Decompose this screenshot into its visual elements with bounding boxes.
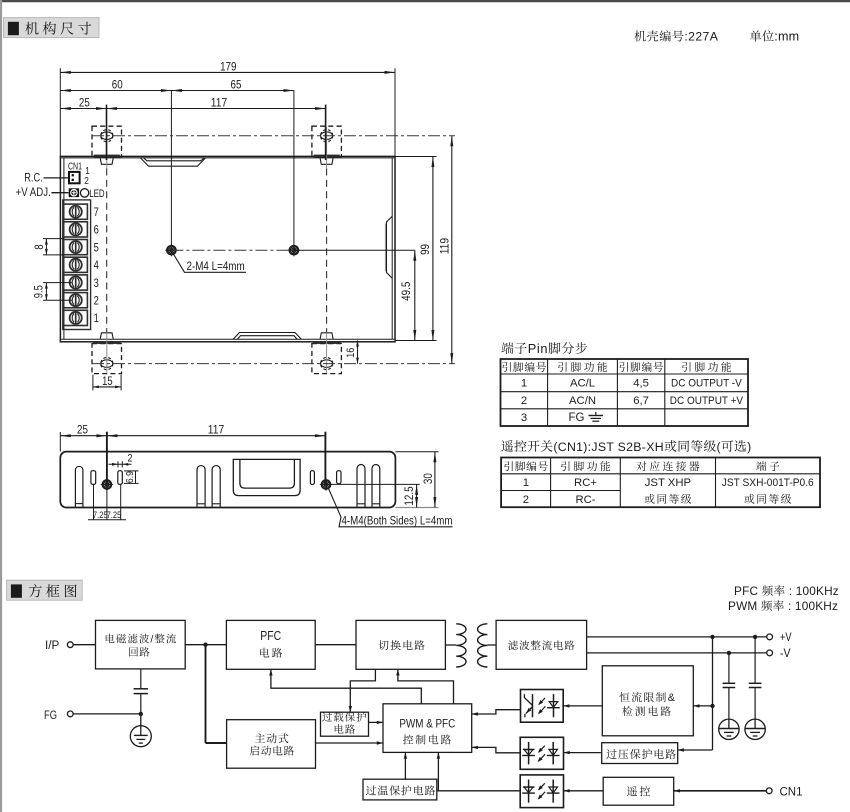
terminal 6 [64, 222, 99, 237]
ext case top right [395, 156, 437, 158]
svg-text:I/P: I/P [45, 640, 60, 652]
center hole 2 [289, 246, 298, 255]
wire EMI to PFC [185, 644, 226, 646]
table1 header row [502, 362, 731, 372]
small slot A [91, 471, 96, 485]
svg-text:179: 179 [220, 59, 237, 73]
terminal 1 [64, 310, 99, 325]
line hole2 to 49.5 dim [294, 249, 415, 251]
wire CN1 [674, 789, 767, 792]
mounting bracket bottom dashed [312, 333, 342, 374]
ext line hole1 up [170, 91, 172, 246]
wire switch to transformer [445, 644, 456, 646]
svg-text:+V: +V [780, 630, 792, 644]
svg-text:12.5: 12.5 [402, 486, 416, 505]
dim 12.5 [331, 484, 420, 507]
unit label [750, 30, 799, 44]
side hole 1 [102, 480, 111, 489]
svg-text:4: 4 [94, 260, 100, 272]
long slots right [357, 465, 380, 508]
svg-text:: 100KHz: : 100KHz [785, 599, 839, 613]
svg-text::227A: :227A [684, 30, 718, 44]
dim 25 117 top view [60, 95, 325, 160]
page left border [0, 0, 2, 812]
svg-text:117: 117 [208, 422, 225, 436]
wire transformer to filter [487, 644, 496, 646]
ext line hole2 up [293, 91, 295, 246]
svg-text:AC/N: AC/N [569, 395, 596, 407]
wire FG [73, 713, 141, 715]
table1 pin functions grid [501, 359, 749, 426]
R.C. label [24, 172, 69, 184]
block overvoltage protection [602, 743, 678, 764]
mounting bracket top dashed [92, 126, 122, 168]
+V rail [587, 636, 767, 638]
dim 15 [93, 375, 121, 391]
terminal 5 [64, 240, 99, 255]
table2 header row [504, 461, 779, 471]
wire I/P to EMI [73, 644, 95, 646]
capacitor C1 [728, 653, 730, 683]
terminal 4 [64, 257, 100, 272]
dim 49.5 [399, 250, 416, 340]
svg-text:30: 30 [421, 473, 435, 484]
chain line between holes [171, 249, 294, 251]
svg-text:65: 65 [231, 77, 242, 91]
table1 row 3 FG earth [521, 412, 603, 424]
bottom edge groove [233, 333, 302, 340]
dim 6.9 [124, 471, 139, 484]
long slots middle [197, 466, 220, 507]
svg-text:25: 25 [77, 422, 88, 436]
small slot B [118, 471, 123, 485]
svg-text:25: 25 [79, 95, 90, 109]
chain line bottom brackets [92, 363, 455, 365]
wire opto1 to PWM [472, 710, 521, 716]
dim 7.25 7.25 [88, 484, 126, 520]
terminal block body [63, 200, 91, 330]
svg-text:AC/L: AC/L [570, 378, 595, 390]
wire start to PWM [316, 741, 384, 744]
block constant current limit [602, 666, 693, 736]
small slot C [310, 471, 314, 485]
chain line top brackets [92, 135, 455, 137]
svg-text::mm: :mm [774, 30, 799, 44]
ext case bottom right [395, 340, 437, 342]
FG terminal [44, 710, 73, 722]
transformer T1 [456, 624, 487, 667]
wire PWM to switch drive [396, 669, 453, 704]
svg-text:2: 2 [84, 176, 89, 187]
block output filter rectifier [496, 620, 586, 669]
svg-text:FG: FG [44, 710, 57, 722]
capacitor C3 Y-cap [140, 669, 142, 689]
dim 2 slot [109, 452, 133, 467]
optocoupler U2 [520, 737, 563, 769]
svg-text:6.9: 6.9 [124, 471, 136, 483]
LED indicator [80, 188, 104, 200]
long slot left [75, 466, 83, 507]
-V rail [587, 652, 767, 654]
svg-text:9.5: 9.5 [34, 285, 46, 298]
block switching circuit [356, 620, 445, 669]
svg-text:R.C.: R.C. [24, 172, 43, 184]
terminal 3 [64, 275, 99, 290]
ground C2 [745, 719, 765, 739]
svg-text:49.5: 49.5 [399, 281, 413, 300]
svg-text:7.25: 7.25 [107, 510, 122, 520]
svg-text:(: ( [717, 440, 722, 454]
+V ADJ. label [16, 187, 69, 199]
svg-text:PWM: PWM [728, 599, 761, 613]
block PWM PFC control [383, 704, 472, 753]
table2 row 2 [523, 494, 596, 506]
dim 9.5 [34, 283, 72, 301]
svg-text:CN1: CN1 [780, 784, 803, 798]
table2 connector cell [645, 477, 692, 504]
side hole 2 [321, 480, 330, 489]
svg-text:3: 3 [94, 278, 99, 290]
svg-text:+V ADJ.: +V ADJ. [16, 187, 51, 199]
wire switch to overload [349, 669, 376, 712]
svg-text:RC+: RC+ [574, 477, 597, 489]
section heading 方框图 [7, 580, 83, 600]
wire temp to PWM [404, 752, 407, 779]
svg-text:16: 16 [345, 348, 357, 358]
table2 row 1 [523, 477, 598, 489]
mounting bracket bottom dashed [92, 333, 122, 374]
junction +V sense [710, 635, 714, 639]
svg-text:PWM & PFC: PWM & PFC [399, 718, 455, 730]
block remote control [603, 777, 674, 805]
table2 title [502, 440, 752, 454]
dim 25 117 side view [60, 422, 325, 484]
capacitor C2 [754, 637, 756, 683]
side view body [60, 452, 395, 508]
optocoupler U1 [521, 690, 564, 723]
terminal 7 [64, 204, 99, 219]
svg-text:&: & [668, 692, 677, 704]
svg-text:Pin: Pin [528, 341, 548, 356]
junction cap1 [727, 651, 731, 655]
dim 30 [395, 452, 438, 508]
svg-text:2: 2 [128, 452, 133, 464]
block EMI filter rectifier [96, 620, 186, 669]
junction sense [710, 704, 714, 708]
wire overload to PWM [369, 721, 384, 724]
wire input to start circuit [206, 645, 227, 743]
2-M4 annotation [173, 253, 247, 273]
center hole 1 [167, 246, 176, 255]
svg-text:1: 1 [521, 378, 527, 390]
section heading 机构尺寸 [4, 18, 100, 38]
table1 row 1 [521, 378, 742, 390]
terminal 2 [64, 293, 99, 308]
wire OVP to opto2 [564, 751, 601, 754]
svg-text:117: 117 [211, 95, 228, 109]
svg-text:PFC: PFC [734, 584, 762, 598]
case outline top view [60, 156, 395, 341]
bracket centerline dashed left [106, 169, 108, 333]
wire +V sense down [712, 637, 714, 750]
svg-text:JST SXH-001T-P0.6: JST SXH-001T-P0.6 [722, 477, 814, 489]
svg-text:-V: -V [780, 646, 791, 660]
svg-text:DC OUTPUT -V: DC OUTPUT -V [671, 378, 742, 390]
block temp protection [363, 779, 437, 800]
svg-text:1: 1 [94, 313, 99, 325]
svg-text:JST XHP: JST XHP [645, 477, 691, 489]
wire temp to opto3 [437, 790, 520, 792]
svg-text:(CN1):JST S2B-XH: (CN1):JST S2B-XH [553, 440, 663, 454]
svg-text:): ) [747, 440, 751, 454]
svg-text:7.25: 7.25 [93, 510, 108, 520]
svg-text:5: 5 [94, 242, 99, 254]
dim 8 [34, 239, 64, 255]
svg-text:2: 2 [523, 494, 529, 506]
svg-text:8: 8 [34, 244, 46, 249]
svg-text:6,7: 6,7 [633, 395, 649, 407]
dim 60 65 [60, 77, 294, 92]
block PFC [226, 620, 315, 669]
junction input [203, 643, 207, 647]
PFC freq label [734, 584, 839, 598]
svg-text:15: 15 [102, 376, 113, 388]
bracket centerline dashed right [326, 169, 328, 333]
dim 16 [345, 341, 359, 364]
dim 99 [418, 157, 435, 341]
4-M4 annotation [329, 489, 453, 528]
svg-text:4-M4(Both Sides) L=4mm: 4-M4(Both Sides) L=4mm [342, 513, 453, 527]
block start circuit [227, 720, 316, 769]
svg-text:60: 60 [112, 77, 123, 91]
svg-text:: 100KHz: : 100KHz [785, 584, 839, 598]
+V terminal [767, 630, 792, 644]
wire opto2 to PWM [472, 746, 521, 753]
mounting bracket top dashed [312, 126, 342, 168]
small slot D [337, 471, 341, 484]
wire sense to CC block [693, 704, 712, 707]
svg-text:/: / [150, 634, 154, 646]
CN1 terminal [766, 784, 803, 798]
svg-text:1: 1 [523, 477, 529, 489]
wire PFC to switch [315, 644, 356, 646]
table1 title [501, 341, 587, 356]
wire opto3 branch to PWM [437, 752, 440, 790]
svg-text:2: 2 [521, 395, 527, 407]
block overload protection [321, 712, 369, 736]
svg-text:7: 7 [94, 207, 99, 219]
svg-text:2: 2 [94, 296, 99, 308]
svg-text:RC-: RC- [575, 494, 595, 506]
side view bottom ext gray [395, 507, 438, 509]
svg-text:99: 99 [418, 244, 432, 255]
svg-text:4,5: 4,5 [633, 378, 649, 390]
wire sense to OVP [678, 748, 713, 751]
wire remote to opto3 [564, 789, 604, 792]
svg-text:6: 6 [94, 225, 99, 237]
svg-text:3: 3 [521, 412, 527, 424]
optocoupler U3 [520, 775, 563, 808]
svg-text:119: 119 [437, 238, 451, 255]
top edge groove [140, 158, 206, 167]
vent cutout [233, 459, 300, 495]
CN1 connector [69, 172, 80, 183]
svg-text:2-M4 L=4mm: 2-M4 L=4mm [187, 259, 245, 273]
svg-text:DC OUTPUT +V: DC OUTPUT +V [670, 395, 744, 407]
ground FG [130, 726, 151, 747]
PWM freq label [728, 599, 838, 613]
dim 119 [437, 136, 453, 364]
table2 terminal cell [722, 477, 814, 504]
wire FG down [140, 714, 142, 726]
wire PWM to PFC drive [269, 669, 421, 704]
ground C1 [719, 719, 739, 739]
svg-text:LED: LED [89, 188, 104, 200]
I/P terminal [45, 640, 73, 652]
wire CC to opto1 [563, 704, 602, 707]
table2 grid [501, 458, 820, 508]
junction FG [139, 712, 143, 716]
-V terminal [767, 646, 791, 660]
case number label [634, 30, 718, 44]
page top border [0, 0, 850, 2]
svg-text:FG: FG [569, 412, 585, 424]
table1 row 2 [521, 395, 744, 407]
dim 179 [60, 59, 395, 156]
junction cap2 [753, 635, 757, 639]
svg-text:PFC: PFC [260, 628, 281, 643]
potentiometer +V ADJ [69, 188, 79, 197]
